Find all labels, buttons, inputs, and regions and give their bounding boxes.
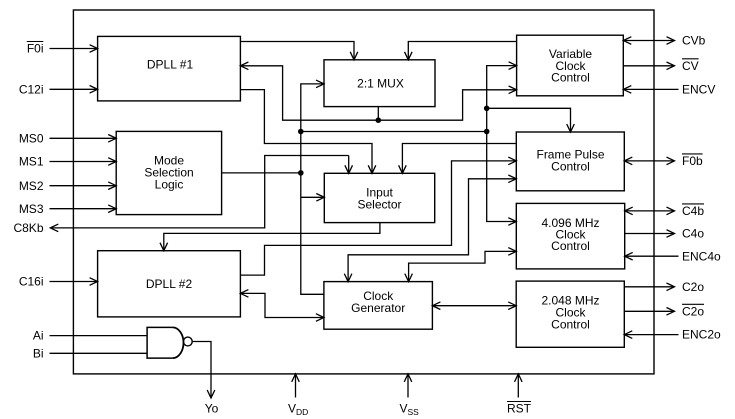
svg-text:Selector: Selector [357, 198, 401, 212]
svg-text:F0i: F0i [27, 42, 44, 56]
svg-text:CV: CV [682, 59, 699, 73]
svg-text:Generator: Generator [351, 301, 405, 315]
svg-text:ENC4o: ENC4o [682, 249, 721, 263]
svg-text:C8Kb: C8Kb [13, 221, 43, 235]
svg-text:MS2: MS2 [19, 179, 44, 193]
svg-text:DPLL #1: DPLL #1 [147, 58, 194, 72]
svg-text:DPLL #2: DPLL #2 [146, 277, 193, 291]
svg-text:C4b: C4b [682, 204, 704, 218]
svg-text:MS1: MS1 [19, 155, 44, 169]
svg-text:ENC2o: ENC2o [682, 328, 721, 342]
svg-text:Control: Control [551, 160, 590, 174]
svg-text:ENCV: ENCV [682, 83, 715, 97]
svg-text:2:1 MUX: 2:1 MUX [357, 77, 404, 91]
svg-text:C16i: C16i [19, 275, 44, 289]
svg-text:Bi: Bi [33, 346, 44, 360]
svg-text:Control: Control [551, 239, 590, 253]
svg-text:Control: Control [551, 71, 590, 85]
svg-text:Control: Control [551, 317, 590, 331]
svg-text:MS3: MS3 [19, 202, 44, 216]
svg-text:MS0: MS0 [19, 131, 44, 145]
svg-text:Logic: Logic [155, 178, 184, 192]
svg-text:F0b: F0b [682, 154, 703, 168]
svg-text:Ai: Ai [33, 329, 44, 343]
svg-text:C12i: C12i [19, 82, 44, 96]
svg-text:CVb: CVb [682, 34, 706, 48]
svg-text:C2o: C2o [682, 280, 704, 294]
svg-text:C4o: C4o [682, 227, 704, 241]
svg-text:C2o: C2o [682, 304, 704, 318]
svg-text:RST: RST [507, 402, 532, 416]
svg-text:Yo: Yo [205, 402, 219, 416]
